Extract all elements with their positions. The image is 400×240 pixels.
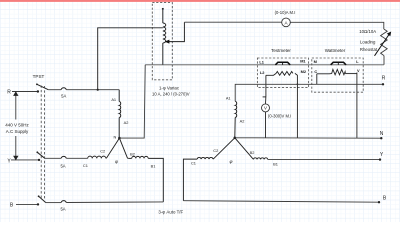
svg-text:B1: B1 [151, 164, 156, 169]
svg-text:B1: B1 [273, 162, 278, 167]
svg-text:Wattmeter: Wattmeter [325, 48, 346, 53]
svg-text:R: R [7, 89, 11, 95]
svg-text:V: V [264, 106, 267, 111]
svg-text:5A: 5A [60, 206, 65, 211]
svg-text:C1: C1 [191, 161, 196, 166]
svg-text:R: R [382, 76, 386, 82]
svg-text:(0-10)A M.I: (0-10)A M.I [275, 10, 296, 15]
svg-text:5A: 5A [61, 94, 66, 99]
svg-text:φ: φ [230, 159, 233, 164]
svg-text:5A: 5A [60, 164, 65, 169]
svg-text:A2: A2 [124, 120, 129, 125]
svg-text:(0-300)V M.I: (0-300)V M.I [268, 114, 291, 119]
svg-text:Loading: Loading [360, 39, 376, 44]
svg-text:N: N [380, 131, 384, 137]
svg-text:C: C [314, 69, 317, 74]
svg-text:M: M [314, 59, 317, 64]
svg-text:C1: C1 [83, 163, 88, 168]
svg-text:B2: B2 [250, 150, 255, 155]
svg-text:TPST: TPST [33, 74, 45, 79]
svg-text:Testmeter: Testmeter [271, 48, 291, 53]
svg-text:A1: A1 [226, 96, 231, 101]
svg-text:1-φ Variac: 1-φ Variac [159, 86, 180, 91]
svg-text:M2: M2 [301, 69, 307, 74]
svg-text:440 V 50Hz: 440 V 50Hz [5, 122, 29, 127]
svg-text:Rheostat: Rheostat [360, 47, 378, 52]
svg-text:C2: C2 [100, 148, 105, 153]
svg-text:φ: φ [115, 159, 118, 164]
svg-text:A2: A2 [240, 118, 245, 123]
svg-text:10Ω/10A: 10Ω/10A [359, 29, 376, 34]
svg-text:M1: M1 [300, 59, 306, 64]
svg-text:A.C Supply: A.C Supply [6, 129, 29, 134]
svg-text:N: N [113, 135, 116, 140]
svg-text:3-φ Auto T/F: 3-φ Auto T/F [158, 209, 183, 214]
svg-text:C2: C2 [213, 148, 218, 153]
svg-text:A1: A1 [111, 97, 116, 102]
svg-text:10 A, 240 / (0-270)V: 10 A, 240 / (0-270)V [152, 92, 190, 97]
svg-text:V: V [357, 68, 360, 73]
svg-text:B2: B2 [130, 151, 135, 156]
